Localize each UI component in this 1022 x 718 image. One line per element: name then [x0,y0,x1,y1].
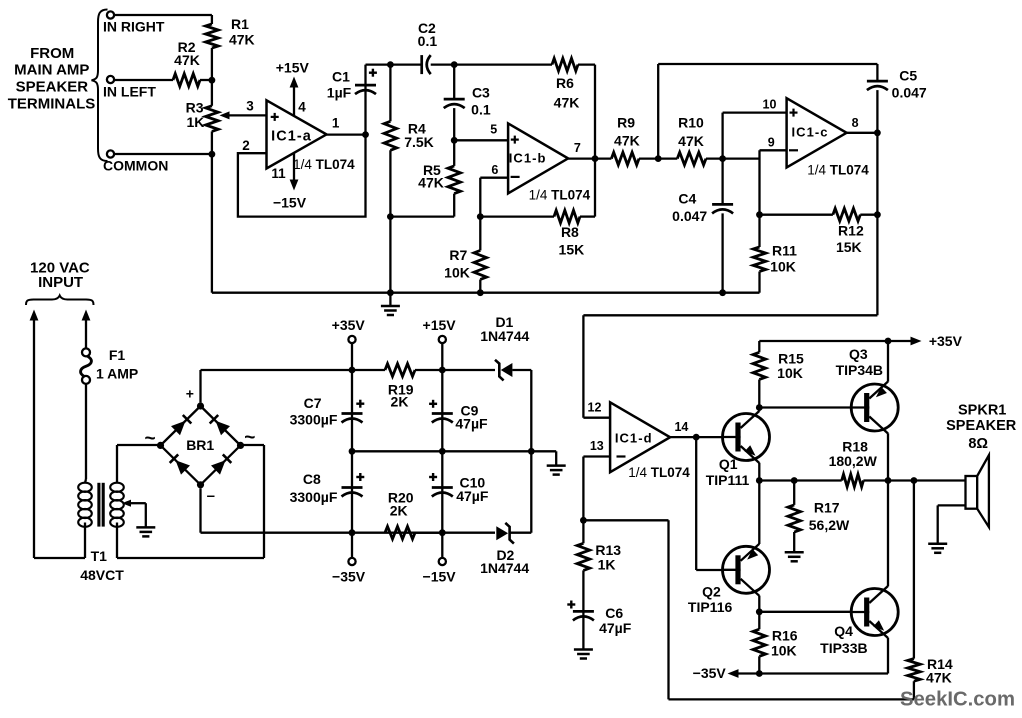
svg-text:7.5K: 7.5K [404,134,434,150]
svg-text:IC1-b: IC1-b [509,151,547,166]
svg-text:SPKR1: SPKR1 [958,402,1006,418]
svg-text:1: 1 [332,116,340,131]
svg-text:−15V: −15V [273,194,307,210]
svg-text:1K: 1K [186,114,204,130]
svg-text:Q4: Q4 [834,623,853,639]
svg-text:0.047: 0.047 [892,85,927,101]
svg-text:C1: C1 [332,69,350,85]
svg-text:TIP116: TIP116 [688,599,733,615]
svg-text:TIP34B: TIP34B [836,362,883,378]
svg-text:C8: C8 [303,471,321,487]
svg-text:R6: R6 [556,75,574,91]
svg-text:15K: 15K [559,241,585,257]
svg-text:R11: R11 [772,243,797,259]
svg-text:−35V: −35V [693,665,727,681]
svg-text:15K: 15K [836,239,862,255]
svg-text:6: 6 [491,163,498,177]
svg-text:3300µF: 3300µF [290,412,338,428]
svg-text:47K: 47K [554,95,580,111]
svg-text:SPEAKER: SPEAKER [946,418,1017,434]
svg-text:R7: R7 [449,247,467,263]
svg-text:−15V: −15V [423,568,457,584]
svg-text:IC1-d: IC1-d [615,431,653,446]
svg-text:1K: 1K [598,557,616,573]
svg-text:10K: 10K [777,365,803,381]
svg-text:47K: 47K [926,670,952,686]
svg-text:8: 8 [852,116,859,130]
svg-text:FROM: FROM [30,45,74,62]
svg-text:0.1: 0.1 [471,102,491,118]
svg-text:BR1: BR1 [186,437,214,453]
svg-text:47K: 47K [418,175,444,191]
svg-text:~: ~ [145,429,156,450]
svg-text:56,2W: 56,2W [809,517,850,533]
svg-text:C7: C7 [304,395,322,411]
svg-text:3: 3 [246,99,254,114]
svg-text:−35V: −35V [332,568,366,584]
svg-text:Q1: Q1 [719,456,738,472]
svg-text:47µF: 47µF [456,488,489,504]
svg-text:1N4744: 1N4744 [480,328,529,344]
svg-text:IC1-a: IC1-a [271,129,312,145]
svg-text:1µF: 1µF [327,85,352,101]
svg-text:10: 10 [763,98,777,112]
svg-text:47K: 47K [229,32,255,48]
svg-text:1/4 TL074: 1/4 TL074 [807,163,869,178]
svg-text:47µF: 47µF [599,620,632,636]
svg-text:180,2W: 180,2W [829,453,878,469]
svg-text:48VCT: 48VCT [80,567,124,583]
svg-text:9: 9 [768,135,775,149]
svg-text:Q3: Q3 [849,346,868,362]
svg-text:10K: 10K [770,258,796,274]
svg-text:0.047: 0.047 [672,208,707,224]
svg-text:T1: T1 [91,548,108,564]
svg-text:4: 4 [298,100,306,115]
svg-text:C3: C3 [472,84,490,100]
svg-text:5: 5 [490,122,497,136]
svg-text:+15V: +15V [276,59,310,75]
svg-text:INPUT: INPUT [38,274,83,291]
svg-text:R9: R9 [617,115,635,131]
svg-text:Q2: Q2 [702,583,721,599]
svg-text:SeekIC.com: SeekIC.com [900,689,1015,711]
svg-text:47K: 47K [678,133,704,149]
svg-text:0.1: 0.1 [418,33,438,49]
svg-text:+35V: +35V [929,333,963,349]
svg-text:10K: 10K [771,643,797,659]
svg-text:C6: C6 [605,605,623,621]
svg-text:47µF: 47µF [455,416,488,432]
svg-text:47K: 47K [174,52,200,68]
svg-text:R17: R17 [814,500,840,516]
svg-text:47K: 47K [614,132,640,148]
svg-text:8Ω: 8Ω [968,436,988,452]
svg-text:R16: R16 [772,628,798,644]
svg-text:1/4 TL074: 1/4 TL074 [293,157,355,172]
svg-text:TIP33B: TIP33B [820,640,867,656]
svg-text:12: 12 [588,401,602,415]
svg-text:2: 2 [242,138,250,153]
svg-text:SPEAKER: SPEAKER [16,78,89,95]
svg-text:TIP111: TIP111 [706,472,750,488]
svg-text:14: 14 [674,420,688,434]
svg-text:R8: R8 [561,224,579,240]
svg-text:3300µF: 3300µF [290,489,338,505]
svg-text:C4: C4 [678,191,696,207]
svg-text:IN LEFT: IN LEFT [103,84,156,100]
svg-text:+35V: +35V [332,317,366,333]
svg-text:IN RIGHT: IN RIGHT [103,19,165,35]
svg-text:2K: 2K [390,502,408,518]
svg-text:+15V: +15V [423,317,457,333]
svg-text:F1: F1 [109,347,126,363]
svg-text:TERMINALS: TERMINALS [8,95,96,112]
svg-text:10K: 10K [444,264,470,280]
svg-text:–: – [207,488,215,505]
svg-text:COMMON: COMMON [103,158,168,174]
svg-text:~: ~ [244,427,255,448]
svg-text:R1: R1 [231,16,249,32]
svg-text:R12: R12 [838,223,864,239]
svg-text:IC1-c: IC1-c [791,124,828,139]
svg-text:1/4 TL074: 1/4 TL074 [529,187,591,202]
svg-text:1 AMP: 1 AMP [96,366,138,382]
svg-text:MAIN AMP: MAIN AMP [14,62,89,79]
svg-text:R10: R10 [678,115,704,131]
svg-text:1N4744: 1N4744 [480,560,529,576]
svg-text:2K: 2K [391,394,409,410]
svg-text:13: 13 [590,439,604,453]
svg-text:11: 11 [271,166,286,181]
svg-text:1/4 TL074: 1/4 TL074 [628,465,690,480]
svg-text:7: 7 [574,141,581,155]
svg-text:C5: C5 [899,68,917,84]
svg-text:R18: R18 [842,438,868,454]
svg-text:+: + [186,385,194,401]
